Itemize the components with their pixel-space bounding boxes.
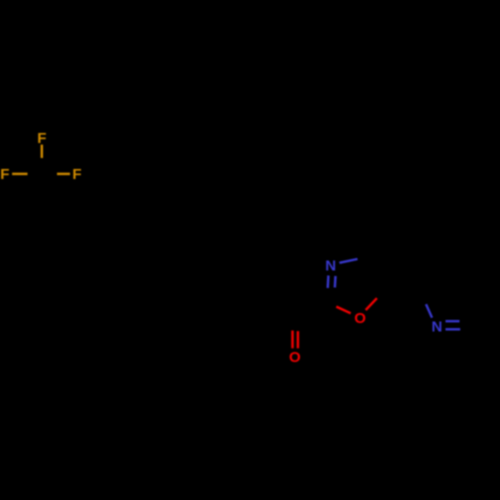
svg-text:F: F [0, 166, 9, 183]
svg-text:N: N [431, 319, 442, 336]
svg-text:N: N [325, 258, 336, 275]
svg-text:O: O [354, 310, 366, 327]
svg-text:F: F [72, 166, 81, 183]
svg-text:F: F [37, 130, 46, 147]
svg-text:O: O [289, 349, 301, 366]
